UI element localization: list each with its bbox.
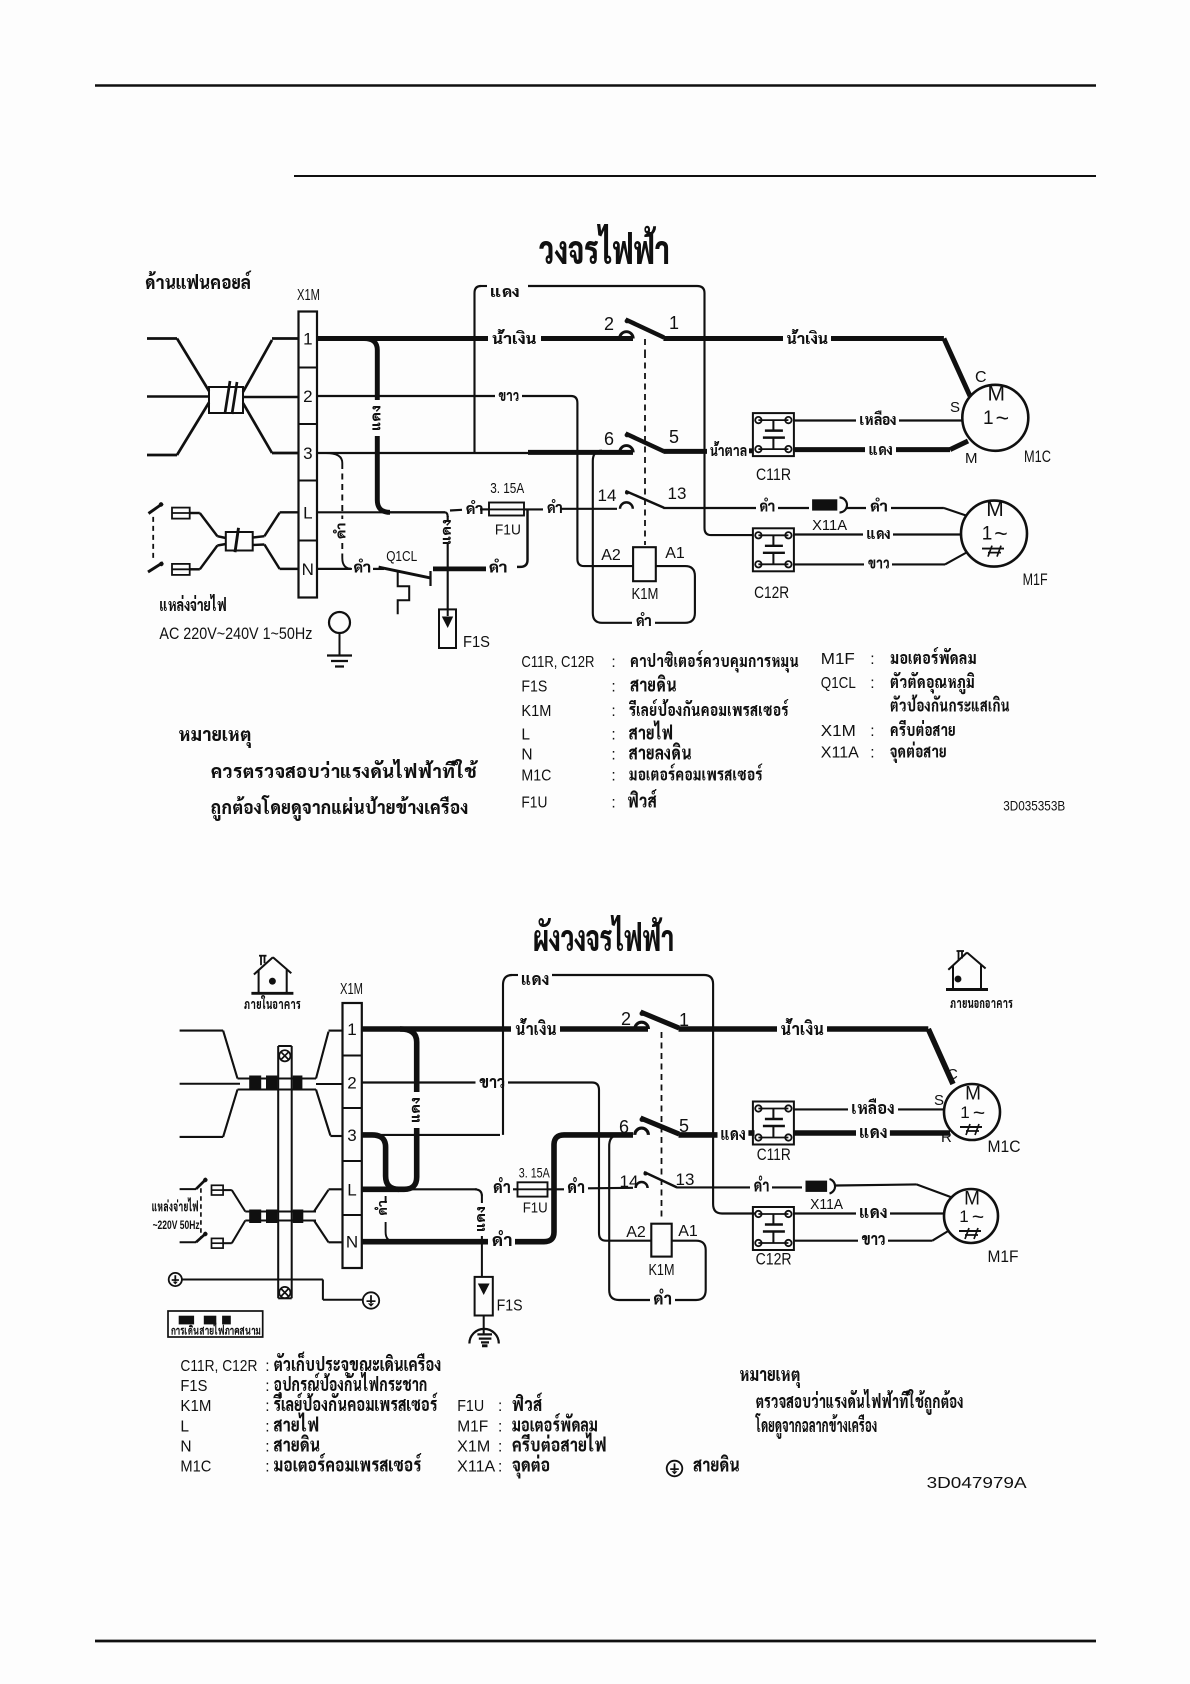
svg-text:3: 3 — [347, 1126, 356, 1145]
svg-text::: : — [611, 795, 615, 812]
svg-text:M: M — [965, 450, 978, 467]
svg-text:A1: A1 — [678, 1223, 698, 1240]
svg-text::: : — [611, 747, 615, 764]
svg-text:3D035353B: 3D035353B — [1003, 798, 1065, 814]
svg-text::: : — [265, 1419, 269, 1436]
svg-text:M1C: M1C — [180, 1459, 211, 1476]
svg-text:F1U: F1U — [523, 1200, 548, 1217]
svg-text:C: C — [975, 369, 987, 386]
svg-text:N: N — [521, 747, 532, 764]
svg-text:~: ~ — [994, 521, 1007, 547]
svg-text:K1M: K1M — [649, 1262, 675, 1279]
svg-text:X1M: X1M — [340, 981, 363, 998]
svg-text:3D047979A: 3D047979A — [927, 1475, 1027, 1492]
svg-text:A2: A2 — [601, 547, 621, 564]
svg-text:M1F: M1F — [821, 651, 855, 668]
svg-text:C11R: C11R — [757, 1146, 791, 1164]
svg-text:2: 2 — [604, 314, 614, 334]
svg-text:1: 1 — [303, 330, 312, 349]
svg-text:F1U: F1U — [457, 1398, 484, 1415]
svg-text:C12R: C12R — [754, 584, 789, 602]
svg-text:F1S: F1S — [497, 1298, 523, 1315]
svg-text:F1S: F1S — [180, 1378, 207, 1395]
svg-text:L: L — [303, 503, 312, 522]
svg-text:M: M — [986, 498, 1004, 521]
svg-text::: : — [265, 1439, 269, 1456]
svg-text:M1C: M1C — [521, 768, 551, 785]
svg-text:N: N — [302, 560, 314, 579]
svg-text:N: N — [180, 1439, 191, 1456]
svg-text:F1S: F1S — [521, 679, 547, 696]
svg-text:X1M: X1M — [821, 723, 856, 740]
svg-text:~: ~ — [972, 1206, 984, 1229]
svg-text:C11R, C12R: C11R, C12R — [180, 1358, 257, 1375]
svg-text::: : — [498, 1439, 502, 1456]
svg-text:S: S — [934, 1092, 944, 1109]
svg-text::: : — [611, 679, 615, 696]
svg-text:K1M: K1M — [632, 586, 659, 603]
svg-text:X1M: X1M — [457, 1439, 490, 1456]
svg-text:X11A: X11A — [457, 1459, 496, 1476]
svg-text:K1M: K1M — [180, 1398, 211, 1415]
svg-text::: : — [265, 1398, 269, 1415]
svg-text:3: 3 — [303, 444, 312, 463]
svg-text:6: 6 — [604, 429, 614, 449]
svg-text:L: L — [521, 727, 530, 744]
svg-text::: : — [498, 1398, 502, 1415]
svg-text:M1C: M1C — [988, 1138, 1021, 1156]
svg-text:14: 14 — [598, 486, 617, 505]
svg-text:1: 1 — [959, 1207, 968, 1226]
svg-text:C11R: C11R — [756, 466, 791, 484]
svg-text:C11R, C12R: C11R, C12R — [521, 654, 594, 671]
svg-text:1: 1 — [983, 408, 994, 429]
svg-text:L: L — [347, 1180, 356, 1199]
svg-text:1: 1 — [960, 1103, 969, 1122]
svg-text:2: 2 — [347, 1074, 356, 1093]
svg-text:Q1CL: Q1CL — [821, 675, 856, 692]
svg-text:~: ~ — [996, 405, 1009, 431]
svg-text:F1U: F1U — [521, 795, 547, 812]
svg-text:5: 5 — [669, 427, 679, 447]
svg-text::: : — [611, 703, 615, 720]
svg-text:~220V 50Hz: ~220V 50Hz — [153, 1220, 200, 1232]
svg-text:1: 1 — [347, 1020, 356, 1039]
svg-text:M1F: M1F — [1023, 571, 1048, 589]
svg-text::: : — [265, 1358, 269, 1375]
svg-text:K1M: K1M — [521, 703, 551, 720]
svg-text:A2: A2 — [626, 1224, 646, 1241]
svg-text::: : — [265, 1459, 269, 1476]
svg-text:2: 2 — [621, 1009, 631, 1029]
svg-text:3. 15A: 3. 15A — [490, 481, 524, 497]
svg-text:Q1CL: Q1CL — [386, 548, 417, 565]
svg-text:A1: A1 — [665, 545, 685, 562]
svg-text::: : — [265, 1378, 269, 1395]
svg-text::: : — [870, 723, 874, 740]
svg-text::: : — [611, 768, 615, 785]
svg-text:F1S: F1S — [463, 634, 490, 651]
svg-text:X11A: X11A — [810, 1197, 843, 1213]
svg-text:C: C — [947, 1066, 958, 1083]
svg-text:1: 1 — [669, 313, 679, 333]
svg-text:M1F: M1F — [457, 1419, 488, 1436]
svg-text:13: 13 — [676, 1170, 695, 1189]
svg-text:L: L — [180, 1419, 189, 1436]
svg-text:~: ~ — [973, 1102, 985, 1125]
svg-text:14: 14 — [620, 1172, 639, 1191]
svg-text:M1C: M1C — [1024, 448, 1051, 466]
svg-text::: : — [498, 1419, 502, 1436]
svg-text:C12R: C12R — [756, 1251, 792, 1269]
svg-text:X11A: X11A — [821, 745, 860, 762]
svg-text:2: 2 — [303, 387, 312, 406]
svg-text:N: N — [346, 1233, 358, 1252]
svg-text::: : — [498, 1459, 502, 1476]
svg-text:M1F: M1F — [988, 1248, 1019, 1266]
svg-text:AC 220V~240V 1~50Hz: AC 220V~240V 1~50Hz — [159, 624, 312, 643]
svg-text::: : — [870, 675, 874, 692]
svg-text:6: 6 — [619, 1117, 629, 1137]
svg-text:X11A: X11A — [812, 517, 847, 534]
svg-text:1: 1 — [982, 524, 993, 545]
svg-text:F1U: F1U — [495, 522, 521, 539]
svg-text:3. 15A: 3. 15A — [519, 1165, 551, 1181]
svg-text::: : — [870, 745, 874, 762]
svg-text:X1M: X1M — [297, 287, 320, 304]
svg-text::: : — [611, 654, 615, 671]
svg-text:M: M — [988, 382, 1006, 405]
svg-text:S: S — [950, 399, 960, 416]
svg-text:13: 13 — [668, 484, 687, 503]
svg-text::: : — [611, 727, 615, 744]
svg-text::: : — [870, 651, 874, 668]
